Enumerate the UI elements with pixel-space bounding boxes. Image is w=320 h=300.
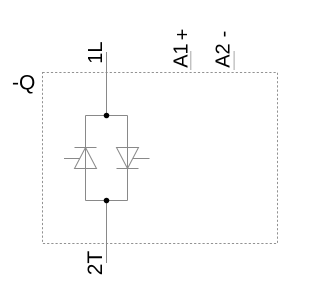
thyristor V1 (left, conducts up) cathode bar: [75, 147, 97, 149]
thyristor V1 triangle: [75, 148, 97, 169]
terminal tick A2: [233, 51, 235, 70]
wire bottom rail: [86, 200, 128, 202]
svg-text:-: -: [213, 31, 235, 38]
wire top rail: [86, 115, 128, 117]
thyristor V2 cathode bar: [117, 168, 139, 170]
node junction bottom: [104, 198, 110, 204]
thyristor V1 gate: [64, 158, 80, 160]
wire 1L lead: [106, 52, 108, 116]
svg-text:1L: 1L: [85, 41, 107, 63]
terminal tick A1: [190, 51, 192, 70]
thyristor V2 gate: [133, 158, 150, 160]
wire right branch: [127, 116, 129, 201]
wire left branch: [85, 116, 87, 201]
svg-text:2T: 2T: [84, 251, 107, 276]
enclosure dashed box -Q: [43, 73, 278, 244]
wire 2T lead: [106, 201, 108, 264]
thyristor V2 (right, conducts down) triangle: [117, 148, 139, 169]
node junction top: [104, 113, 110, 119]
svg-text:+: +: [172, 29, 194, 41]
svg-text:-Q: -Q: [12, 72, 35, 95]
svg-text:A1: A1: [170, 43, 192, 67]
svg-text:A2: A2: [212, 43, 234, 67]
